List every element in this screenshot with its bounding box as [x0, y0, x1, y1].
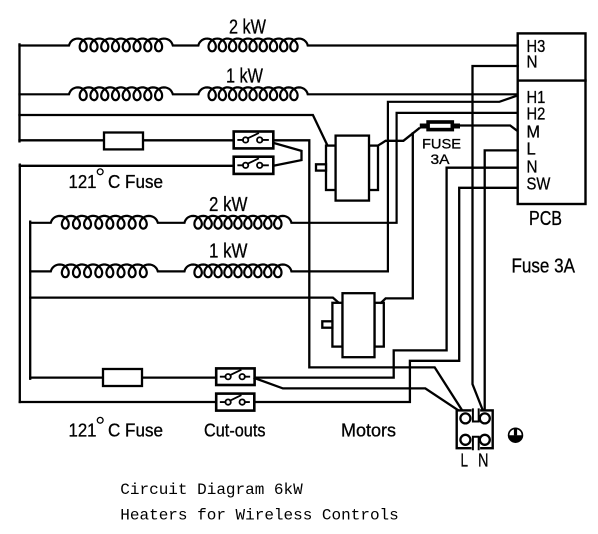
wire left bus (top bank) — [18, 44, 20, 141]
cut-out switch S3 (bottom) — [216, 368, 254, 385]
wire PCB L to terminal block — [485, 150, 518, 411]
svg-text:Heaters for Wireless Controls: Heaters for Wireless Controls — [120, 507, 398, 525]
cut-out switch S1 (top) — [234, 132, 274, 149]
svg-text:Fuse 3A: Fuse 3A — [512, 256, 576, 278]
cut-out switch S2 (top) — [234, 157, 274, 174]
terminal block L/N — [457, 409, 493, 450]
motor M2 — [322, 293, 384, 357]
wire inner bus (bottom bank) — [29, 222, 31, 379]
heater coil 2 kW (top bank) — [20, 39, 518, 52]
svg-text:2 kW: 2 kW — [229, 16, 267, 39]
heater coil 2 kW (bottom bank) — [30, 113, 518, 229]
ground symbol — [509, 428, 523, 442]
svg-text:Cut-outs: Cut-outs — [204, 421, 266, 441]
svg-text:1 kW: 1 kW — [226, 65, 264, 88]
heater coil 1 kW (bottom bank) — [30, 95, 518, 277]
wire to motor M1 — [20, 115, 328, 146]
thermal fuse F1 (121C) — [104, 133, 143, 150]
heater coil 1 kW (top bank) — [20, 87, 518, 100]
PCB box — [518, 33, 586, 204]
svg-text:SW: SW — [527, 174, 551, 194]
wire bracket joining S1 and S2 outputs — [273, 143, 301, 166]
svg-text:FUSE: FUSE — [422, 137, 461, 152]
wire branch S3 to terminal block — [255, 378, 463, 413]
wire PCB N (top) to terminal block — [473, 66, 518, 411]
svg-text:1 kW: 1 kW — [209, 240, 248, 263]
svg-text:C Fuse: C Fuse — [108, 172, 163, 192]
svg-text:3A: 3A — [431, 152, 450, 167]
motor M1 — [316, 136, 378, 201]
wire to motor M2 — [30, 298, 339, 303]
svg-text:Circuit Diagram 6kW: Circuit Diagram 6kW — [120, 481, 303, 499]
fuse F3 3A — [420, 122, 460, 130]
wire cut-out S1 output to terminal block — [273, 140, 463, 412]
svg-text:121: 121 — [69, 172, 97, 192]
PCB pin labels — [527, 36, 551, 193]
svg-text:L: L — [461, 451, 469, 471]
svg-text:C Fuse: C Fuse — [108, 421, 163, 441]
svg-text:Motors: Motors — [341, 421, 396, 441]
wire bottom row to PCB SW — [20, 188, 518, 402]
wire left bus (bottom bank) — [19, 165, 21, 402]
svg-text:PCB: PCB — [529, 208, 562, 230]
svg-text:N: N — [478, 451, 489, 471]
wire motor M2 to fuse F3 — [381, 133, 413, 302]
cut-out switch S4 (bottom) — [216, 394, 254, 411]
thermal fuse F2 (121C) — [103, 369, 142, 386]
wire fuse F3 to PCB M — [460, 126, 517, 132]
wire fuse row (bottom bank) to PCB N — [30, 168, 518, 378]
wire top edge to cut-out S2 — [20, 165, 234, 167]
svg-text:2 kW: 2 kW — [209, 193, 248, 216]
wire motor M1 to fuse F3 — [378, 128, 419, 145]
svg-text:N: N — [527, 52, 538, 72]
wire fuse row (top bank) — [20, 139, 234, 141]
svg-text:121: 121 — [69, 421, 97, 441]
